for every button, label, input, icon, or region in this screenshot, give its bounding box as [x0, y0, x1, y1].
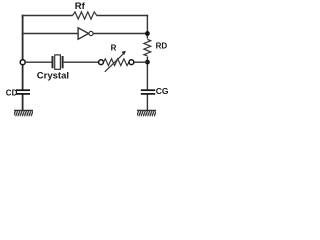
svg-text:Crystal: Crystal	[37, 71, 69, 82]
node open terminal left	[20, 60, 25, 65]
node junction right	[145, 60, 150, 65]
node open terminal R right	[129, 60, 134, 65]
resistor RD	[144, 39, 151, 56]
capacitor CG	[141, 89, 155, 91]
node open terminal R left	[99, 60, 104, 65]
wire crystal right lead	[64, 61, 99, 63]
ground right	[137, 109, 156, 111]
wire top lead left of Rf	[22, 15, 73, 17]
wire left vertical rail upper	[22, 15, 24, 90]
svg-text:RD: RD	[156, 42, 168, 51]
wire left rail below capacitor CD	[22, 94, 24, 111]
wire R to right rail	[134, 61, 148, 63]
crystal X1	[52, 56, 54, 68]
svg-text:Rf: Rf	[75, 1, 86, 12]
resistor Rf	[73, 12, 97, 19]
node junction at inverter output	[145, 31, 150, 36]
wire right vertical rail top	[146, 15, 148, 39]
ground left	[14, 109, 33, 111]
wire crystal left lead	[25, 61, 51, 63]
svg-text:CD: CD	[6, 89, 18, 98]
wire inverter output	[93, 33, 147, 35]
capacitor CD	[16, 89, 30, 91]
resistor R variable	[104, 59, 130, 66]
wire inverter input	[22, 33, 78, 35]
svg-text:CG: CG	[156, 86, 169, 96]
wire top lead right of Rf	[97, 15, 149, 17]
arrow of variable resistor R	[105, 54, 124, 72]
op-amp U1 inverter	[78, 28, 89, 39]
wire right rail mid	[146, 57, 148, 91]
wire right rail below junction	[146, 94, 148, 111]
svg-text:R: R	[111, 44, 117, 53]
